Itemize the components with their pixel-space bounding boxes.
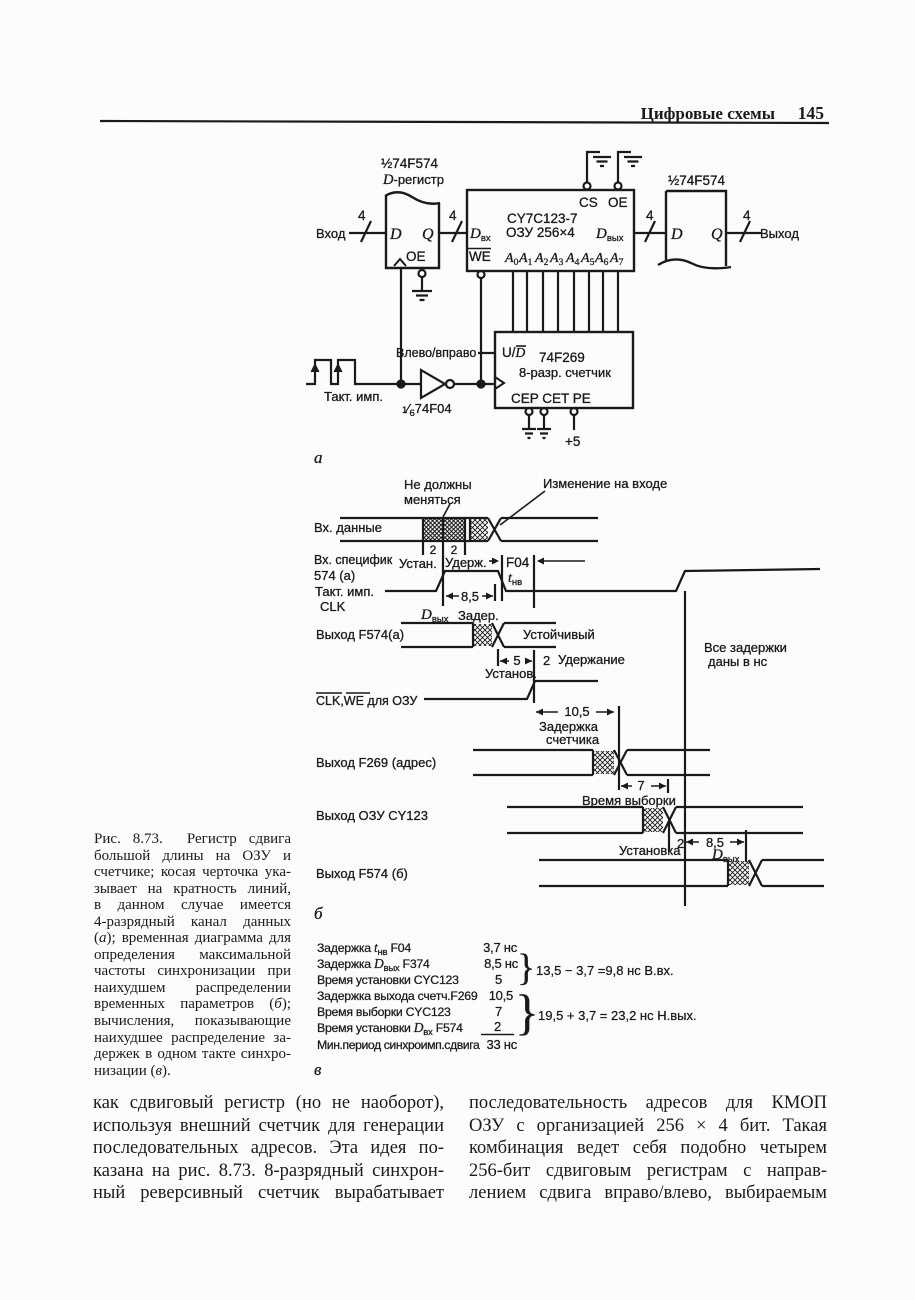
svg-text:A2: A2 [534, 251, 549, 268]
svg-text:A3: A3 [549, 251, 564, 268]
svg-text:}: } [517, 947, 535, 989]
svg-text:Dвх: Dвх [469, 226, 491, 244]
svg-text:Задержка Dвых F374: Задержка Dвых F374 [317, 956, 430, 974]
svg-text:Влево/вправо: Влево/вправо [396, 346, 476, 360]
svg-text:счетчика: счетчика [546, 732, 600, 747]
svg-text:2: 2 [430, 543, 437, 557]
svg-text:Мин.период синхроимп.сдвига: Мин.период синхроимп.сдвига [317, 1038, 480, 1052]
svg-text:3,7 нс: 3,7 нс [483, 940, 518, 955]
svg-text:D-регистр: D-регистр [382, 172, 444, 188]
svg-text:Задержка выхода счетч.F269: Задержка выхода счетч.F269 [317, 989, 478, 1003]
svg-text:145: 145 [798, 103, 825, 123]
svg-text:A1: A1 [518, 251, 533, 268]
svg-text:2: 2 [677, 836, 684, 851]
svg-text:Вх. данные: Вх. данные [314, 520, 382, 535]
svg-text:10,5: 10,5 [564, 704, 589, 719]
svg-text:меняться: меняться [404, 492, 461, 507]
svg-text:CEP CET PE: CEP CET PE [511, 391, 591, 406]
svg-text:D: D [389, 226, 402, 243]
svg-text:Время установки Dвх F574: Время установки Dвх F574 [317, 1020, 463, 1038]
svg-text:Вход: Вход [316, 226, 346, 241]
svg-text:Выход: Выход [760, 226, 799, 241]
svg-text:4: 4 [646, 208, 654, 223]
svg-text:2: 2 [543, 653, 550, 668]
svg-text:Установ.: Установ. [485, 666, 537, 681]
svg-text:Время выборки CYC123: Время выборки CYC123 [317, 1005, 451, 1019]
svg-text:Цифровые схемы: Цифровые схемы [641, 104, 775, 123]
svg-text:13,5 − 3,7 =9,8 нс В.вх.: 13,5 − 3,7 =9,8 нс В.вх. [536, 963, 674, 978]
svg-text:+5: +5 [565, 434, 580, 449]
svg-text:OE: OE [608, 195, 628, 210]
svg-text:ОЗУ 256×4: ОЗУ 256×4 [506, 225, 575, 240]
svg-text:Удерж.: Удерж. [445, 555, 487, 570]
svg-text:D: D [670, 226, 683, 243]
svg-text:4: 4 [358, 208, 366, 223]
svg-text:Вх. специфик: Вх. специфик [314, 553, 393, 567]
svg-text:tнв: tнв [508, 571, 522, 588]
svg-text:Такт. имп.: Такт. имп. [324, 389, 383, 404]
svg-text:10,5: 10,5 [489, 988, 513, 1003]
svg-text:Задержка tнв F04: Задержка tнв F04 [317, 940, 411, 958]
svg-text:1⁄674F04: 1⁄674F04 [402, 401, 452, 419]
svg-text:}: } [515, 984, 539, 1040]
svg-text:Удержание: Удержание [558, 652, 625, 667]
svg-text:WE: WE [469, 249, 491, 264]
svg-text:CY7C123-7: CY7C123-7 [507, 211, 578, 226]
svg-text:4: 4 [449, 208, 457, 223]
svg-text:A5: A5 [580, 251, 595, 268]
svg-text:Dвых: Dвых [711, 847, 740, 865]
svg-text:CLK,WE для ОЗУ: CLK,WE для ОЗУ [316, 694, 417, 708]
svg-text:Q: Q [711, 226, 723, 243]
svg-text:в: в [314, 1060, 322, 1079]
svg-text:74F269: 74F269 [539, 350, 585, 365]
svg-text:33 нс: 33 нс [486, 1037, 517, 1052]
svg-text:б: б [314, 904, 323, 923]
svg-text:A4: A4 [565, 251, 580, 268]
svg-text:Задер.: Задер. [458, 608, 499, 623]
svg-text:A7: A7 [609, 251, 624, 268]
svg-text:8,5 нс: 8,5 нс [484, 956, 519, 971]
svg-text:574 (а): 574 (а) [314, 568, 355, 583]
svg-text:8-разр. счетчик: 8-разр. счетчик [519, 365, 611, 380]
svg-text:Время выборки: Время выборки [582, 793, 676, 808]
svg-text:Устойчивый: Устойчивый [523, 627, 595, 642]
svg-text:CLK: CLK [320, 599, 346, 614]
svg-text:U/D: U/D [502, 345, 526, 360]
svg-text:Dвых: Dвых [595, 226, 624, 244]
svg-text:а: а [314, 448, 323, 467]
svg-text:4: 4 [743, 208, 751, 223]
svg-text:Такт. имп.: Такт. имп. [315, 584, 374, 599]
svg-text:Не должны: Не должны [404, 477, 472, 492]
svg-text:A6: A6 [594, 251, 609, 268]
svg-text:7: 7 [637, 778, 644, 793]
svg-text:19,5 + 3,7 = 23,2 нс Н.вых.: 19,5 + 3,7 = 23,2 нс Н.вых. [538, 1008, 697, 1023]
svg-text:A0: A0 [504, 251, 519, 268]
svg-text:Все задержки: Все задержки [704, 640, 787, 655]
svg-text:8,5: 8,5 [461, 589, 479, 604]
svg-text:Q: Q [422, 226, 434, 243]
svg-text:OE: OE [406, 249, 426, 264]
svg-text:7: 7 [495, 1004, 502, 1019]
svg-text:½74F574: ½74F574 [668, 173, 726, 188]
svg-text:½74F574: ½74F574 [381, 156, 439, 171]
svg-text:Выход F574 (б): Выход F574 (б) [316, 866, 408, 881]
svg-text:5: 5 [495, 972, 502, 987]
svg-text:Установка: Установка [619, 843, 681, 858]
svg-text:даны в нс: даны в нс [708, 654, 768, 669]
svg-text:Dвых: Dвых [420, 607, 449, 625]
svg-text:Изменение на входе: Изменение на входе [543, 476, 667, 491]
svg-text:2: 2 [494, 1019, 501, 1034]
svg-text:Выход F574(а): Выход F574(а) [316, 627, 404, 642]
svg-text:CS: CS [579, 195, 598, 210]
svg-text:Время установки CYC123: Время установки CYC123 [317, 973, 459, 987]
svg-text:Устан.: Устан. [399, 556, 437, 571]
svg-text:Выход ОЗУ CY123: Выход ОЗУ CY123 [316, 808, 428, 823]
svg-text:F04: F04 [506, 555, 530, 570]
svg-text:Выход F269 (адрес): Выход F269 (адрес) [316, 755, 436, 770]
